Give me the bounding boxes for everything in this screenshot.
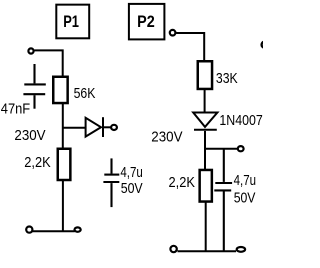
wire: bottom rail (right circuit): [178, 250, 237, 252]
terminal (P1 top input): [28, 48, 33, 53]
terminal (top right edge, clipped): [262, 42, 268, 48]
diode D2 1N4007: [193, 113, 217, 130]
svg-text:56K: 56K: [74, 85, 96, 102]
wire: junction to right mid terminal: [205, 148, 237, 150]
svg-text:2,2K: 2,2K: [169, 174, 195, 191]
wire: R4 to bottom rail: [205, 202, 207, 252]
terminal (P2 top input): [170, 30, 176, 36]
connector box P2: [129, 4, 165, 40]
wire: R1 to R2 vertical bus: [62, 103, 64, 149]
svg-text:50V: 50V: [121, 180, 143, 197]
resistor R2 2,2K: [58, 149, 71, 180]
terminal (right mid): [238, 146, 244, 151]
capacitor C2 4,7u (left, floating symbol): [103, 158, 119, 207]
wire: bottom rail (left circuit): [33, 230, 75, 232]
terminal (bottom left of left circuit): [26, 227, 32, 233]
terminal (bottom right of right circuit): [237, 247, 245, 252]
terminal (bottom right of left circuit): [75, 227, 81, 231]
svg-text:2,2K: 2,2K: [24, 154, 50, 171]
resistor R4 2,2K: [200, 170, 212, 202]
connector box P1: [56, 5, 89, 39]
svg-text:230V: 230V: [151, 129, 182, 146]
wire: P2 terminal to R3: [176, 33, 204, 61]
svg-text:P2: P2: [137, 12, 155, 31]
svg-text:230V: 230V: [14, 127, 45, 144]
wire: R2 to bottom rail: [62, 180, 64, 231]
wire: R3 to D2: [204, 89, 206, 113]
svg-text:33K: 33K: [216, 70, 238, 87]
wire: P1 terminal to left bus: [34, 50, 62, 77]
wire: D2 cathode to R4: [204, 131, 206, 170]
svg-text:P1: P1: [63, 12, 79, 31]
svg-text:1N4007: 1N4007: [219, 112, 262, 129]
svg-text:50V: 50V: [234, 189, 256, 206]
resistor R3 33K: [198, 61, 212, 89]
svg-text:4,7u: 4,7u: [234, 172, 256, 189]
svg-text:4,7u: 4,7u: [120, 164, 142, 181]
capacitor C3 4,7u (right): [214, 149, 232, 252]
resistor R1 56K: [53, 77, 67, 103]
diode D1: [86, 117, 111, 137]
capacitor C1 47nF: [23, 64, 45, 109]
terminal (D1 output): [111, 125, 117, 130]
wire: junction to diode anode: [63, 127, 86, 129]
terminal (bottom left of right circuit): [170, 246, 176, 252]
svg-text:47nF: 47nF: [1, 101, 30, 118]
